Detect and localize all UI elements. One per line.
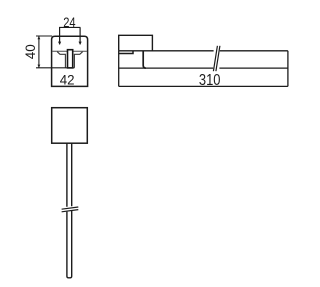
slot: [68, 50, 73, 68]
bar right end: [287, 51, 289, 87]
side view wall plate rect: [119, 35, 153, 51]
post with rounded corner: [143, 51, 146, 68]
svg-text:40: 40: [23, 44, 38, 59]
rod break mark: [62, 207, 79, 209]
dim 40 bottom extension line: [36, 67, 74, 69]
svg-text:42: 42: [60, 72, 75, 88]
cover seam line: [52, 50, 87, 52]
dim line 40 with arrows: [38, 36, 40, 67]
svg-text:310: 310: [199, 72, 221, 89]
bar bottom line: [119, 67, 214, 69]
dim line 310: [119, 85, 288, 87]
bracket front view outline: [52, 36, 88, 86]
svg-text:24: 24: [63, 15, 76, 30]
T-shaped mount detail: [57, 52, 82, 68]
bar top line: [119, 50, 214, 52]
bar break mark: [213, 46, 217, 71]
extension arrow right of 24: [79, 27, 81, 44]
bottom view square: [52, 108, 88, 144]
notch under plate: [119, 51, 133, 53]
dim 40 top extension line: [36, 35, 52, 37]
extension arrow left of 24: [59, 27, 61, 44]
rod: [67, 143, 72, 277]
dim line 24: [59, 26, 80, 28]
side view left vertical: [118, 51, 120, 87]
